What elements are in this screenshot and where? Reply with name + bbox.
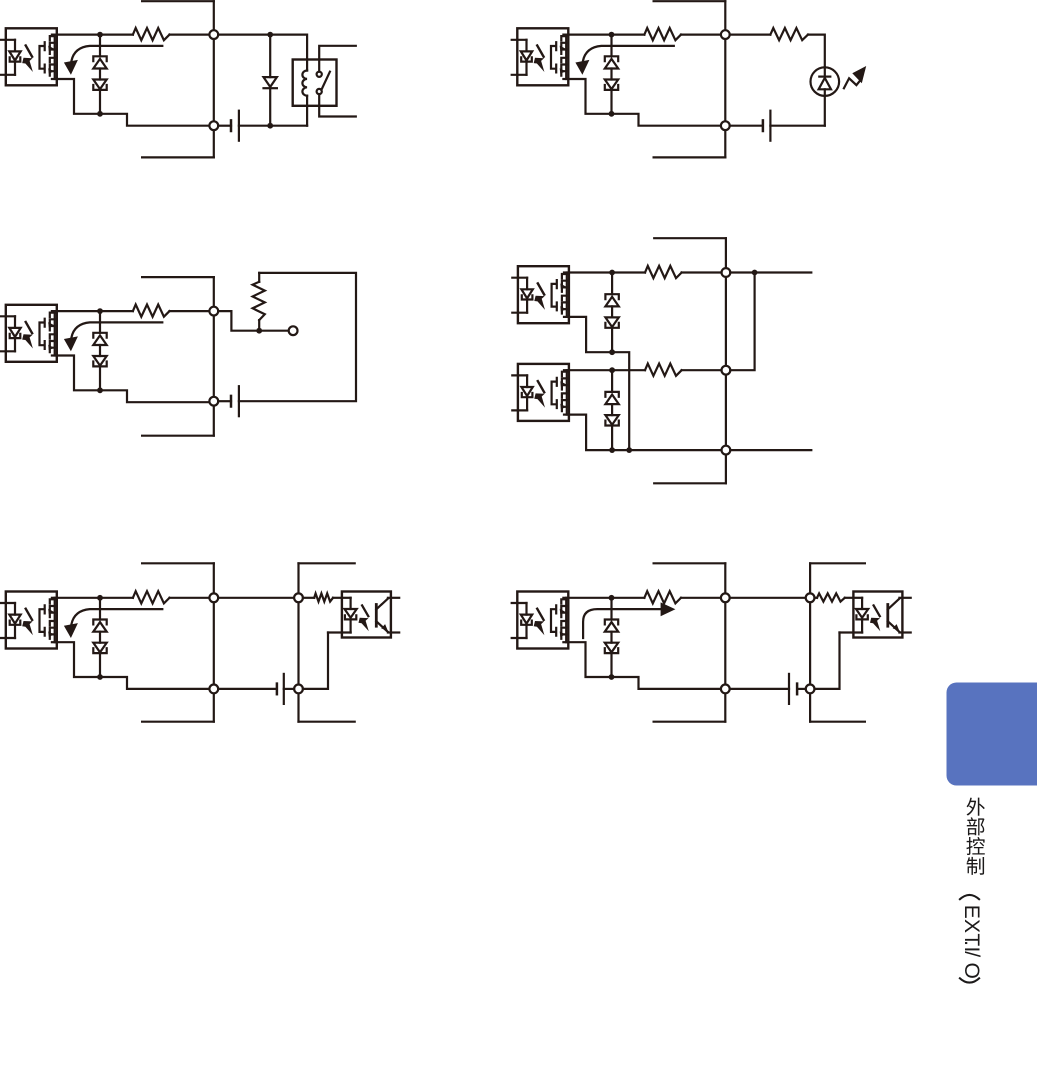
external terminal circle (top) [294, 593, 303, 602]
terminal bus wire [724, 1, 726, 157]
wire (U4 bottom pin) [569, 317, 612, 352]
node dot (wired-OR junction) [752, 270, 758, 276]
instrument frame edge (top) [654, 562, 726, 564]
terminal bus wire [725, 238, 727, 483]
optocoupler U6 wires (output pins) [57, 597, 133, 599]
instrument frame edge (bottom) [654, 156, 726, 158]
wire (U3 bottom to terminal) [100, 390, 209, 402]
node dot (U1 output-) [97, 111, 103, 117]
instrument frame edge (top) [654, 0, 726, 2]
relay contact (lower) [317, 89, 322, 94]
wire (U1 bottom to terminal) [100, 114, 209, 126]
optocoupler U6 (PhotoMOS output) [0, 592, 57, 649]
terminal circle [209, 397, 218, 406]
external frame edge (bottom) [299, 721, 355, 723]
wire (rail C beyond terminal) [730, 449, 811, 451]
wire (U3 bottom pin) [57, 356, 100, 391]
protection diodes D (U3) [93, 311, 106, 390]
node dot (U1 output+) [97, 32, 103, 38]
wire (node to open terminal) [259, 330, 288, 332]
instrument frame edge (bottom) [142, 721, 214, 723]
terminal circle [722, 268, 731, 277]
wire (U8 bottom pin) [568, 642, 611, 677]
terminal bus wire [213, 1, 215, 157]
optocoupler U1 (PhotoMOS output) [0, 28, 57, 85]
instrument frame edge (top) [142, 276, 214, 278]
resistor R8 [314, 593, 333, 601]
wire (bottom rail) [218, 125, 231, 127]
node dot (U8 output+) [609, 595, 615, 601]
node dot (U3 output+) [97, 308, 103, 314]
instrument frame edge (bottom) [142, 156, 214, 158]
node dot (U4 chain bottom on rail) [626, 447, 632, 453]
node dot (U2 output+) [609, 32, 615, 38]
node dot (U2 output-) [609, 111, 615, 117]
battery V3 [230, 396, 233, 407]
wire (U9 LED return) [815, 633, 840, 689]
terminal circle [209, 307, 218, 316]
terminal bus wire [213, 277, 215, 436]
node dot (U4 +) [609, 270, 615, 276]
external frame edge (bottom) [810, 721, 865, 723]
instrument frame edge (bottom) [654, 721, 726, 723]
optocoupler U5 (PhotoMOS output) [512, 364, 569, 421]
resistor R6 [645, 266, 682, 278]
wire (bottom rail to battery) [730, 688, 789, 690]
terminal bus wire [213, 563, 215, 721]
external terminal circle (bottom) [294, 685, 303, 694]
relay contact (upper) [317, 72, 322, 77]
protection diodes (U5) [605, 370, 618, 449]
current-flow arrow (U6) [71, 609, 162, 624]
terminal circle [721, 685, 730, 694]
relay switch lever [321, 72, 330, 90]
wire (rail B up to rail A) [730, 273, 754, 371]
optocoupler U3 wires (output pins) [57, 310, 133, 312]
instrument frame edge (top) [654, 237, 726, 239]
current-flow arrow (U1) [71, 46, 162, 61]
wire (R8 to U7) [333, 597, 342, 599]
sidebar text closing paren [959, 978, 980, 983]
terminal circle [209, 593, 218, 602]
wire (bottom rail to battery) [218, 688, 277, 690]
wire (U4 output to R6) [569, 271, 645, 273]
wire (U7 LED return) [303, 633, 328, 689]
instrument frame edge (top) [142, 562, 214, 564]
protection diodes D (U6) [93, 598, 106, 677]
wire (U1 bottom pin) [57, 79, 100, 114]
optocoupler U8 (PhotoMOS output) [512, 592, 569, 649]
node dot (pull-up node) [256, 328, 262, 334]
wire (top rail between terminals) [218, 597, 294, 599]
sidebar text 外部控制 [967, 798, 985, 816]
resistor R (U6 top rail) [133, 591, 170, 603]
protection diodes D (U1) [93, 35, 106, 114]
optocoupler U2 wires (output pins) [568, 33, 644, 35]
terminal bus wire [724, 563, 726, 721]
external bus wire [809, 563, 811, 721]
relay terminal wire (lower) [319, 94, 356, 116]
terminal circle [721, 121, 730, 130]
relay K1 [293, 60, 337, 106]
optocoupler U1 wires (output pins) [57, 33, 133, 35]
node dot (U6 output-) [97, 674, 103, 680]
terminal circle [209, 685, 218, 694]
resistor R4 (LED series) [770, 28, 808, 40]
terminal circle [722, 366, 731, 375]
wire (battery to terminal) [218, 400, 231, 402]
terminal circle [721, 593, 730, 602]
wire (U8 bottom to terminal) [612, 677, 721, 689]
node dot (diode D3 bottom) [267, 123, 273, 129]
resistor R (U3 top rail) [133, 305, 170, 317]
open terminal circle [289, 326, 298, 335]
optocoupler U8 wires (output pins) [568, 597, 644, 599]
terminal circle [209, 30, 218, 39]
node dot (U5 -) [609, 447, 615, 453]
wire (rail A beyond terminal) [730, 271, 811, 273]
flyback diode D3 [269, 35, 271, 78]
optocoupler U9 (LED + phototransistor) [840, 592, 911, 638]
relay coil [302, 71, 307, 96]
node dot (U4 -) [609, 349, 615, 355]
protection diodes D (U2) [605, 35, 618, 114]
resistor R (U2 top rail) [644, 28, 681, 40]
battery V1 [230, 120, 233, 131]
node dot (U8 output-) [609, 674, 615, 680]
wire (U5 output to R7) [569, 369, 645, 371]
wire (top rail between terminals) [730, 597, 806, 599]
optocoupler U3 (PhotoMOS output) [0, 305, 57, 362]
external terminal circle (bottom) [806, 685, 815, 694]
battery V2 [762, 120, 765, 131]
instrument frame edge (bottom) [142, 435, 214, 437]
wire (U6 bottom pin) [57, 642, 100, 677]
node dot (U3 output-) [97, 387, 103, 393]
wire (terminal to pull-up node) [218, 311, 256, 331]
current-flow arrow (U8) [583, 609, 661, 638]
resistor R (U1 top rail) [133, 28, 170, 40]
current-flow arrow (U3) [71, 322, 162, 337]
wire (terminal to R9) [815, 597, 818, 599]
wire (R4 to LED) [808, 35, 825, 68]
battery V5 [276, 684, 279, 695]
current-flow arrow (U2) [583, 46, 674, 61]
LED indicator DS1 [811, 67, 840, 96]
resistor R9 [817, 593, 845, 601]
wire (bottom rail) [730, 125, 763, 127]
external bus wire [297, 563, 299, 721]
external terminal circle (top) [806, 593, 815, 602]
node dot (U6 output+) [97, 595, 103, 601]
wire (LED cathode down) [824, 96, 826, 126]
optocoupler U4 (PhotoMOS output) [512, 266, 569, 323]
wire (U4 - down to bottom rail) [612, 352, 629, 450]
resistor R7 [645, 364, 682, 376]
node dot (U5 +) [609, 367, 615, 373]
wire (U2 bottom to terminal) [612, 114, 721, 126]
wire (U2 bottom pin) [568, 79, 611, 114]
wire (U5 bottom pin to bottom rail) [569, 415, 722, 451]
protection diodes D (U8) [605, 598, 618, 677]
terminal circle [722, 446, 731, 455]
svg-text:EXT.I/O: EXT.I/O [960, 905, 983, 979]
wire (top rail to relay) [218, 35, 307, 71]
protection diodes (U4) [605, 273, 618, 352]
node dot (diode D3 top) [267, 32, 273, 38]
optocoupler U7 (LED + phototransistor) [328, 592, 399, 638]
pull-up resistor R5 [258, 273, 260, 282]
wire (U6 bottom to terminal) [100, 677, 209, 689]
optocoupler U2 (PhotoMOS output) [512, 28, 569, 85]
relay terminal wire (upper) [319, 46, 356, 72]
external frame edge (top) [810, 562, 865, 564]
terminal circle [721, 30, 730, 39]
resistor R (U8 top rail) [644, 591, 681, 603]
wire (top rail to R4) [730, 33, 771, 35]
chapter tab (blue) [947, 683, 1037, 786]
LED emission arrow [844, 78, 859, 88]
instrument frame edge (top) [142, 0, 214, 2]
external frame edge (top) [299, 562, 355, 564]
wire (terminal to R8) [303, 597, 314, 599]
terminal circle [209, 121, 218, 130]
external supply loop wire [239, 273, 356, 401]
battery V6 (reversed) [788, 674, 790, 704]
sidebar text opening paren of (EXT.I/O) [959, 895, 980, 900]
wire (R9 to U9) [845, 597, 854, 599]
instrument frame edge (bottom) [654, 482, 726, 484]
